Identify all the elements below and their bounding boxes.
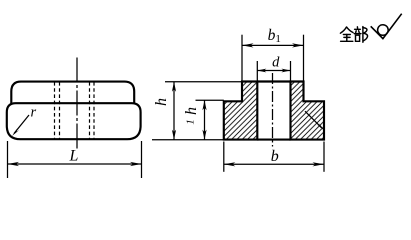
dimension L line [8,163,142,165]
char 部 right [362,27,364,43]
svg-text:h: h [183,107,200,115]
svg-text:d: d [272,54,280,70]
hole bottom edge [257,139,290,141]
centerline section [272,73,274,147]
dimension b extensions [223,142,225,172]
svg-text:h: h [153,98,170,106]
svg-text:r: r [31,105,37,121]
svg-text:1: 1 [185,119,197,125]
surface finish symbol [371,14,402,39]
svg-text:L: L [69,148,79,165]
left cut area hatch [224,82,257,140]
dimension d extensions [256,61,258,81]
dimension b1 extensions [241,35,243,81]
dimension b line [224,163,324,165]
leader r [14,115,29,134]
bottom slab outline [7,103,141,139]
char 全 [340,27,346,33]
dimension h extension lines [165,81,242,83]
dimension d line [257,70,290,72]
hidden hole line 1 [54,82,56,139]
dimension b1 line [242,44,304,46]
dimension L extension lines [7,141,9,178]
dimension h1 line [204,100,206,139]
dimension h1 extension [196,99,224,101]
top face outline [11,82,134,104]
right cut area hatch [291,82,325,140]
hidden hole line 3 [89,82,91,139]
corner leader arrow [305,111,322,128]
dimension h line [173,82,175,140]
char 部 left [356,27,358,29]
svg-text:b: b [271,148,279,165]
hole top edge [257,80,290,82]
vertical centerline left view [76,58,78,151]
hidden hole line 4 [93,82,95,139]
hidden hole line 2 [59,82,61,139]
